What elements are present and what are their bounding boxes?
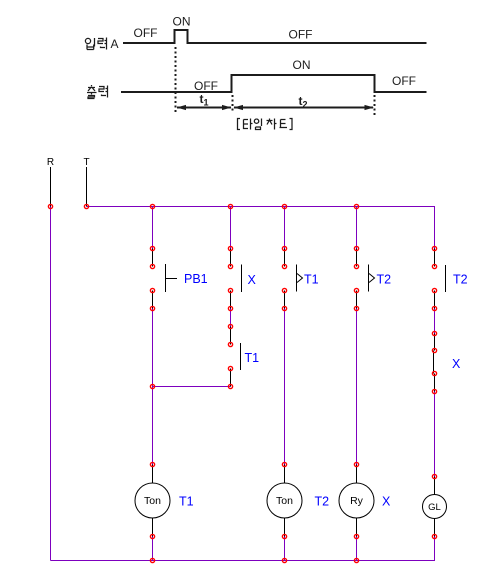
wire: jog joining column 2 to column 1 — [153, 386, 231, 388]
svg-text:Ry: Ry — [350, 495, 364, 507]
wire: top rail from T — [87, 206, 435, 208]
timing chart: dashed guide at pulse rise — [175, 47, 177, 112]
svg-text:GL: GL — [428, 502, 441, 513]
contact X (relay a-contact, column 2) — [231, 249, 257, 309]
svg-text:T2: T2 — [377, 273, 392, 287]
wire: column 5 between contacts — [434, 309, 436, 334]
wire: column 4 middle run — [356, 309, 358, 465]
nodes of contact T1 column 3 — [282, 246, 286, 310]
wire: column 3 coil to bottom rail — [284, 537, 286, 561]
svg-text:T1: T1 — [245, 351, 260, 365]
svg-text:X: X — [382, 495, 391, 509]
label t2 — [299, 94, 308, 110]
R terminal stub wire — [50, 167, 52, 207]
wire: column 1 coil to bottom rail — [152, 537, 154, 561]
junction node top rail column 3 — [282, 204, 286, 208]
label "[timing chart]" (Korean [타임 차트]) drawn as paths — [238, 119, 293, 130]
junction node top rail column 1 — [150, 204, 154, 208]
wire: column 4 drop — [356, 206, 358, 249]
wire: column 5 down to lamp — [434, 392, 436, 477]
label t1 — [200, 92, 209, 108]
nodes of contact T1 second row — [228, 324, 232, 388]
wire: column 2 below contact X — [230, 309, 232, 327]
contact X (b-contact, column 5 second row) — [434, 334, 462, 392]
svg-text:X: X — [452, 357, 461, 371]
svg-text:ON: ON — [173, 15, 191, 29]
svg-text:T2: T2 — [315, 495, 330, 509]
timing chart: dashed guide at output fall — [374, 95, 376, 115]
wire: column 5 lamp to bottom rail — [434, 537, 436, 561]
junction node top rail column 2 — [228, 204, 232, 208]
svg-text:OFF: OFF — [134, 26, 158, 40]
nodes of coil Ry — [354, 462, 358, 538]
wire: column 3 middle run — [284, 309, 286, 465]
svg-text:T2: T2 — [453, 273, 468, 287]
label "input A" (Korean 입력 A) drawn as paths — [85, 38, 106, 50]
contact T2 (timer contact, column 4) — [357, 249, 392, 309]
nodes of lamp GL — [432, 474, 436, 538]
svg-text:ON: ON — [293, 58, 311, 72]
svg-text:Ton: Ton — [276, 495, 293, 507]
contact T1 (timer contact, column 3) — [285, 249, 319, 309]
svg-text:OFF: OFF — [194, 79, 218, 93]
nodes of coil T1 — [150, 462, 154, 538]
svg-text:OFF: OFF — [392, 74, 416, 88]
junction node bottom rail column 4 — [354, 558, 358, 562]
nodes of contact X column 2 — [228, 246, 232, 310]
nodes of contact T2 column 5 — [432, 246, 436, 310]
contact T2 (relay contact, column 5) — [435, 249, 468, 309]
junction node jog on column 1 — [150, 384, 154, 388]
nodes of contact PB1 — [150, 246, 154, 310]
wire: R left rail vertical — [50, 207, 52, 561]
timer coil Ton T1 (column 1) — [135, 465, 194, 537]
svg-text:T1: T1 — [179, 495, 194, 509]
timing chart: t2 dimension arrow — [234, 105, 375, 110]
contact T1 (holding contact, column 2 second row) — [231, 327, 260, 387]
T terminal stub wire — [86, 167, 88, 207]
nodes of coil T2 — [282, 462, 286, 538]
wire: bottom rail — [51, 560, 436, 562]
nodes of contact T2 column 4 — [354, 246, 358, 310]
wire: column 1 middle run — [152, 309, 154, 465]
nodes of contact X second row column 5 — [432, 331, 436, 393]
svg-text:T1: T1 — [304, 273, 319, 287]
wire: column 1 drop — [152, 206, 154, 249]
timing chart: dashed guide at output rise — [232, 95, 234, 113]
wire: column 3 drop — [284, 206, 286, 249]
svg-text:T: T — [83, 157, 89, 168]
wire: column 5 drop — [434, 206, 436, 249]
label "output" (Korean 출력) drawn as paths — [87, 85, 108, 99]
svg-text:A: A — [111, 37, 119, 51]
relay coil Ry X (column 4) — [339, 465, 391, 537]
wire: column 4 coil to bottom rail — [356, 537, 358, 561]
junction node bottom rail column 1 — [150, 558, 154, 562]
svg-text:PB1: PB1 — [184, 272, 208, 286]
wire: column 2 drop — [230, 206, 232, 249]
timer coil Ton T2 (column 3) — [267, 465, 329, 537]
svg-text:OFF: OFF — [289, 28, 313, 42]
svg-text:1: 1 — [204, 98, 209, 108]
timing chart: output waveform — [121, 75, 427, 92]
svg-text:X: X — [248, 273, 257, 287]
junction node on R rail — [48, 204, 52, 208]
junction node top rail column 4 — [354, 204, 358, 208]
contact PB1 (pushbutton, column 1) — [153, 249, 208, 309]
svg-text:Ton: Ton — [144, 495, 161, 507]
lamp GL (column 5) — [423, 477, 447, 537]
timing chart: input A waveform — [123, 30, 427, 43]
junction node bottom rail column 3 — [282, 558, 286, 562]
svg-text:2: 2 — [303, 100, 308, 110]
timing chart: t1 dimension arrow — [177, 105, 232, 110]
junction node T to top rail — [84, 204, 88, 208]
svg-text:R: R — [47, 157, 54, 168]
